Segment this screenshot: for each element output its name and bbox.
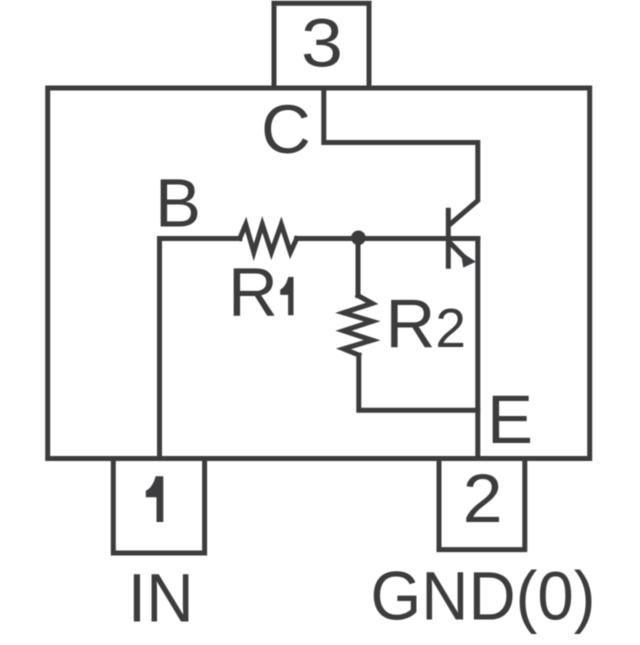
transistor Q1 emitter arrowhead [461, 252, 476, 268]
svg-text:R: R [228, 254, 278, 331]
svg-text:E: E [487, 381, 533, 458]
wire: R1 to transistor base and emitter rail corner [297, 236, 478, 241]
transistor Q1 emitter line [451, 243, 464, 256]
svg-text:2: 2 [463, 460, 503, 537]
resistor R2 [344, 296, 373, 355]
resistor R1 [240, 224, 297, 252]
pin 1 pad [113, 459, 204, 554]
svg-text:R2: R2 [386, 285, 466, 362]
pin 2 pad [439, 459, 525, 550]
svg-text:GND(0): GND(0) [371, 558, 596, 635]
package outline [48, 88, 590, 459]
wire: emitter rail down to pin 2 [475, 239, 480, 459]
svg-text:B: B [155, 164, 201, 241]
svg-text:C: C [261, 91, 311, 168]
junction node dot [351, 231, 366, 246]
wire: R2 bottom lead to emitter rail [359, 355, 478, 410]
pin 1 number label [146, 476, 164, 522]
wire: collector from pin 3 to transistor [324, 88, 478, 224]
transistor Q1 base bar [446, 210, 451, 266]
pin 3 pad [274, 3, 369, 88]
svg-text:3: 3 [301, 4, 343, 81]
svg-text:IN: IN [128, 560, 194, 637]
wire: base input from pin 1 up and right to R1 [160, 239, 240, 459]
wire: R2 top lead [356, 239, 361, 296]
